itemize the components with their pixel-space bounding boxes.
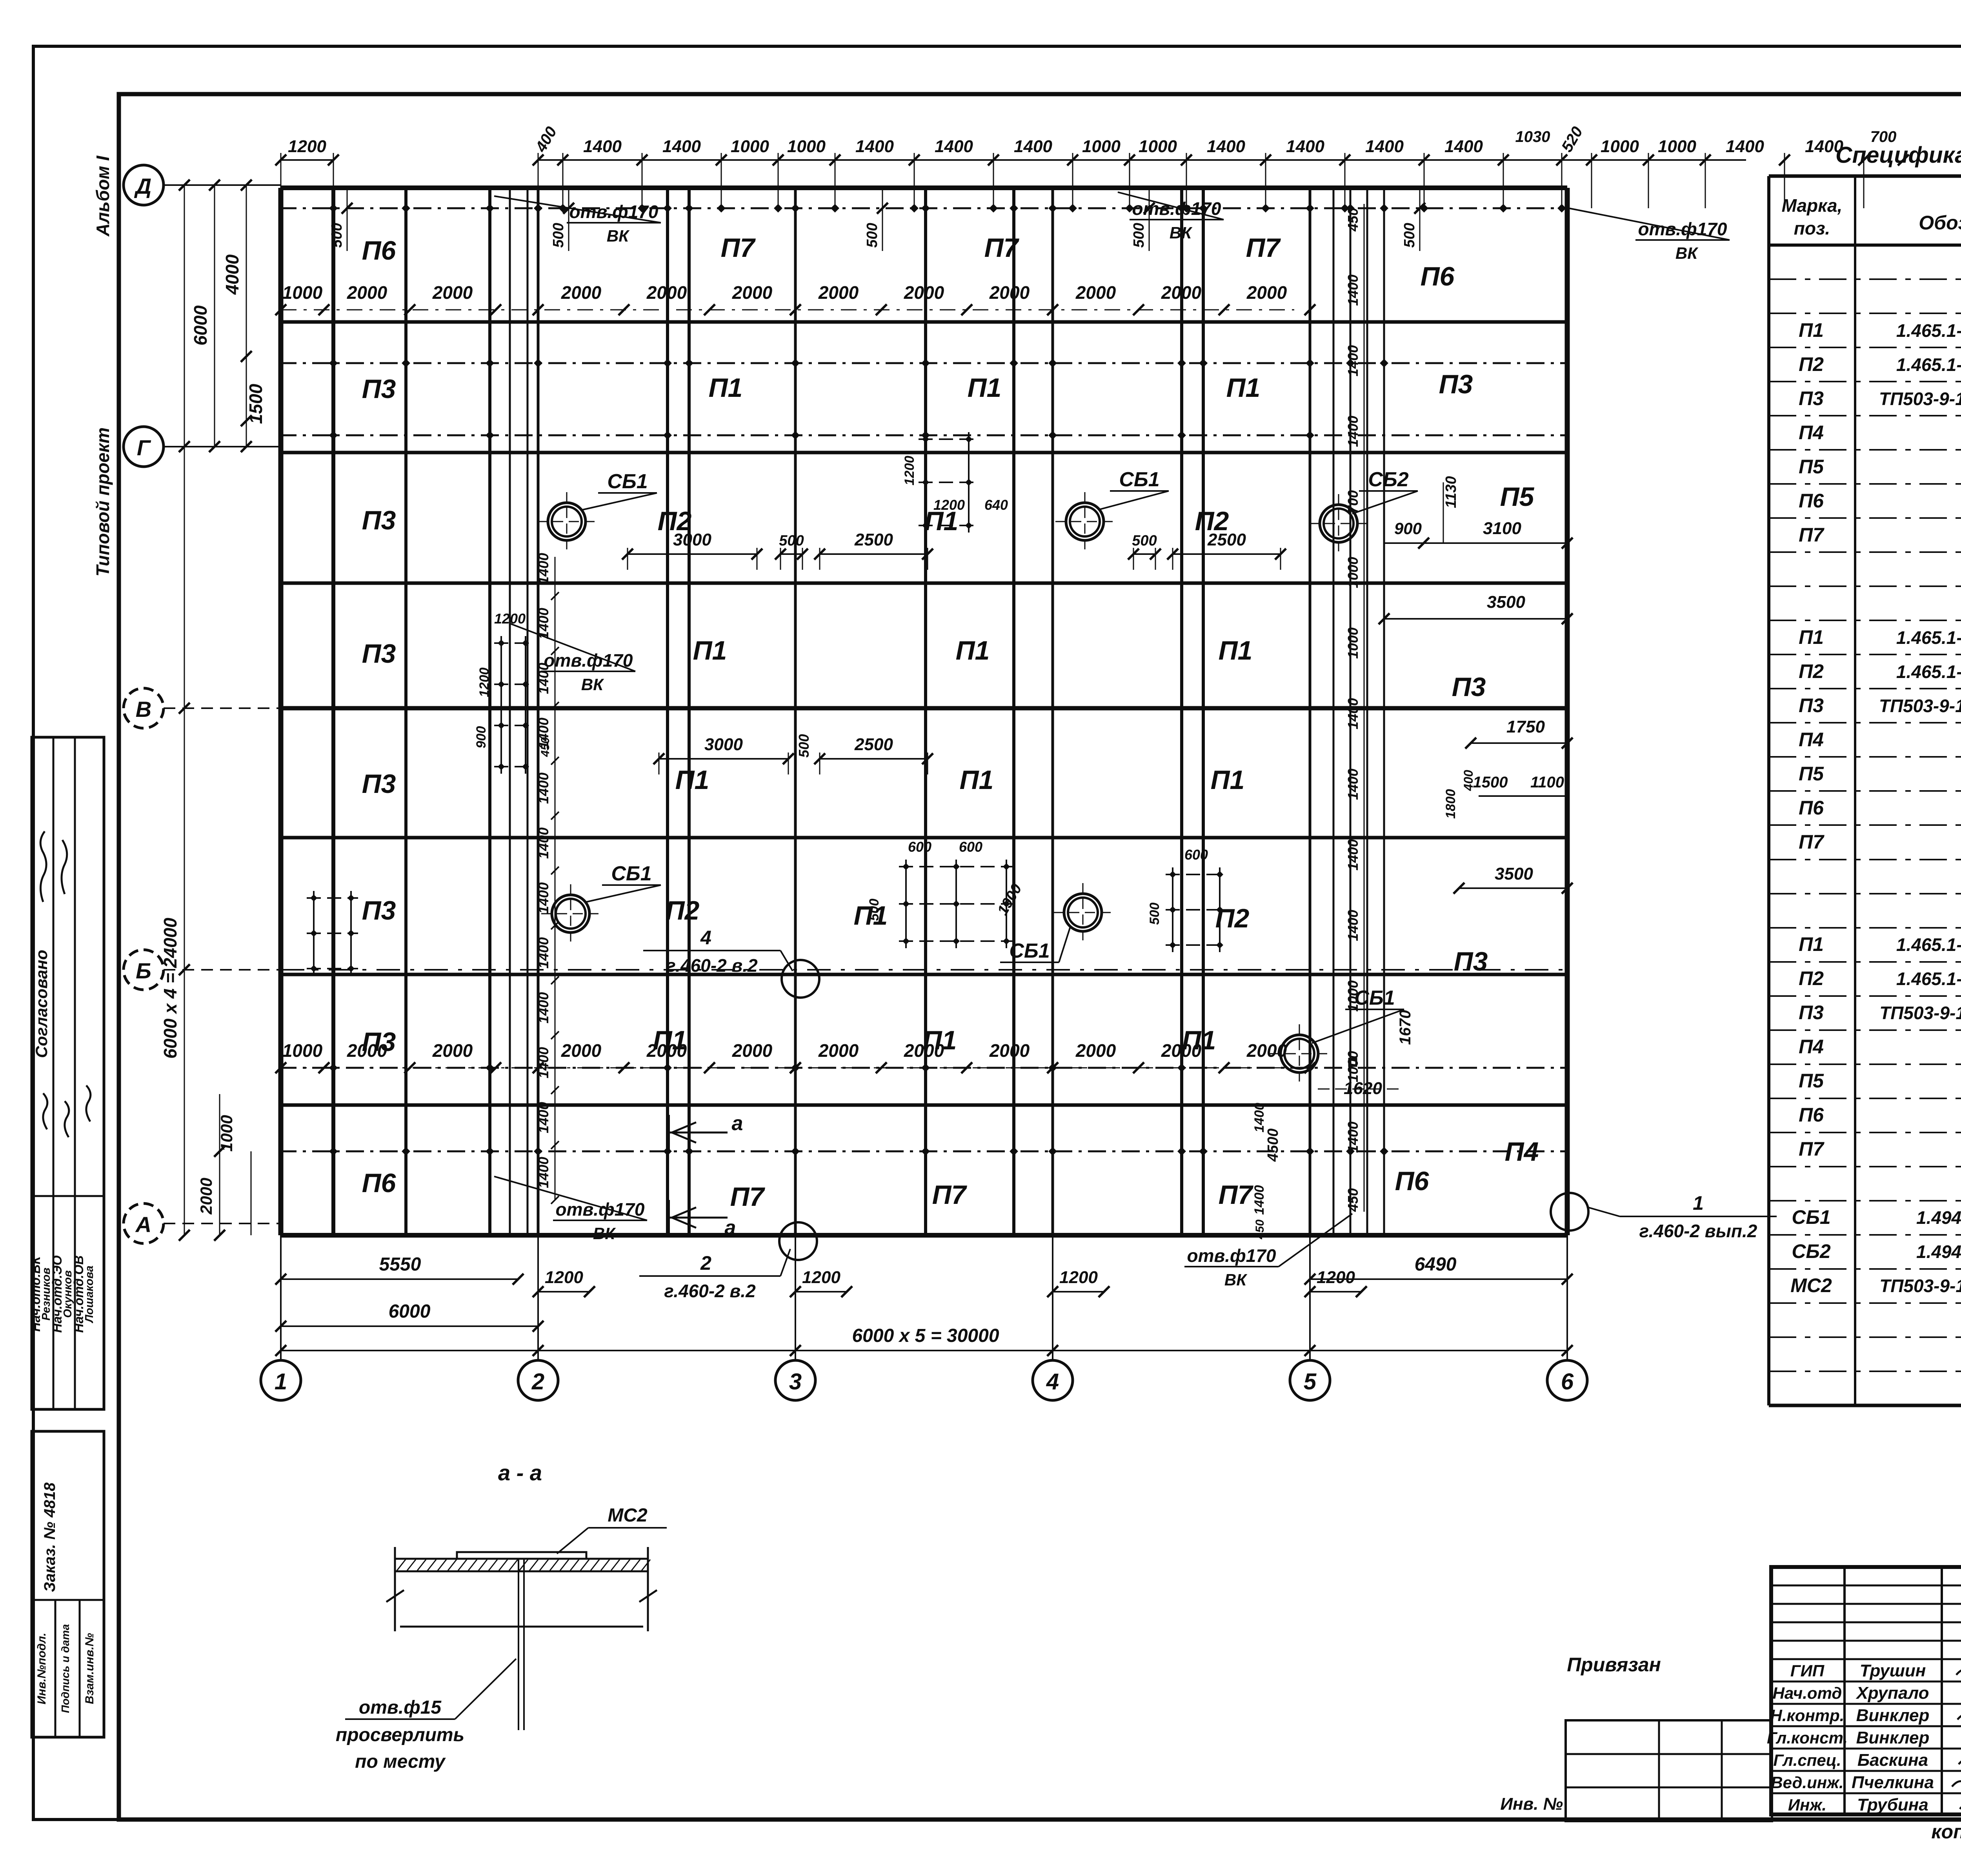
upper 2000 dimension row bbox=[275, 282, 1315, 315]
svg-text:500: 500 bbox=[1132, 533, 1157, 549]
svg-text:ТП503-9-12.86 КЖИ.050: ТП503-9-12.86 КЖИ.050 bbox=[1879, 1003, 1961, 1023]
svg-text:1000: 1000 bbox=[1345, 980, 1361, 1012]
svg-text:Привязан: Привязан bbox=[1567, 1654, 1661, 1676]
svg-text:2000: 2000 bbox=[432, 1040, 473, 1061]
svg-text:3000: 3000 bbox=[673, 530, 711, 549]
svg-text:П5: П5 bbox=[1500, 482, 1535, 512]
svg-text:2000: 2000 bbox=[989, 282, 1030, 303]
svg-text:500: 500 bbox=[1131, 223, 1147, 247]
bottom dims 5550 6000 bbox=[275, 1254, 544, 1332]
svg-text:Гл.спец.: Гл.спец. bbox=[1773, 1751, 1841, 1769]
svg-text:П6: П6 bbox=[1799, 490, 1824, 512]
svg-text:2000: 2000 bbox=[732, 1040, 773, 1061]
svg-text:1.465.1-10/82 вып.1: 1.465.1-10/82 вып.1 bbox=[1896, 934, 1961, 955]
svg-text:1030: 1030 bbox=[1515, 128, 1550, 145]
svg-text:1.494-24 вып.1: 1.494-24 вып.1 bbox=[1916, 1207, 1961, 1228]
svg-text:1400: 1400 bbox=[1726, 137, 1764, 156]
plan vertical slab joints and walls bbox=[281, 188, 1567, 1235]
svg-text:П3: П3 bbox=[1799, 387, 1824, 409]
svg-text:П1: П1 bbox=[693, 636, 727, 665]
svg-text:1400: 1400 bbox=[855, 137, 894, 156]
svg-text:3: 3 bbox=[789, 1369, 802, 1394]
left dims 6000 4000 1500 bbox=[190, 180, 266, 452]
top dimension chain 1400s bbox=[532, 124, 1909, 208]
svg-text:3500: 3500 bbox=[1487, 593, 1525, 612]
svg-text:3000: 3000 bbox=[704, 735, 743, 754]
svg-text:СБ2: СБ2 bbox=[1368, 468, 1408, 491]
svg-text:1000: 1000 bbox=[787, 137, 826, 156]
svg-text:СБ1: СБ1 bbox=[1792, 1206, 1830, 1228]
svg-text:2: 2 bbox=[700, 1252, 711, 1274]
svg-text:П7: П7 bbox=[1799, 524, 1825, 546]
section a-a detail bbox=[336, 1460, 667, 1772]
svg-text:2000: 2000 bbox=[818, 282, 859, 303]
svg-text:6: 6 bbox=[1561, 1369, 1574, 1394]
svg-text:Винклер: Винклер bbox=[1856, 1706, 1930, 1725]
svg-text:П2: П2 bbox=[666, 896, 700, 925]
svg-text:СБ1: СБ1 bbox=[1119, 468, 1159, 491]
svg-text:1.465.1-10/82 вып.1: 1.465.1-10/82 вып.1 bbox=[1896, 354, 1961, 375]
mid dims 3000 2500 bbox=[622, 530, 1286, 774]
svg-text:П1: П1 bbox=[1211, 765, 1245, 795]
svg-text:П3: П3 bbox=[362, 505, 396, 535]
svg-text:1130: 1130 bbox=[1443, 476, 1459, 508]
svg-text:П1: П1 bbox=[1799, 319, 1824, 341]
svg-text:5550: 5550 bbox=[379, 1254, 421, 1275]
row axis circles Д Г В Б А bbox=[124, 165, 281, 1243]
svg-text:1200: 1200 bbox=[288, 137, 326, 156]
svg-text:2000: 2000 bbox=[1075, 1040, 1116, 1061]
auxiliary grid table bbox=[1566, 1720, 1772, 1821]
svg-text:1200: 1200 bbox=[933, 497, 965, 513]
spec table frame bbox=[1769, 176, 1961, 1405]
svg-text:П3: П3 bbox=[1799, 694, 1824, 716]
svg-text:А: А bbox=[135, 1212, 151, 1237]
svg-text:г.460-2 в.2: г.460-2 в.2 bbox=[664, 1281, 756, 1301]
column axis circles 1-6 bbox=[261, 1235, 1587, 1400]
svg-text:400: 400 bbox=[1461, 770, 1475, 791]
svg-text:1.465.1-10/82 вып.1: 1.465.1-10/82 вып.1 bbox=[1896, 627, 1961, 648]
svg-text:1000: 1000 bbox=[1658, 137, 1696, 156]
svg-text:1400: 1400 bbox=[1345, 274, 1361, 306]
svg-text:1400: 1400 bbox=[1345, 839, 1361, 871]
svg-text:П7: П7 bbox=[730, 1182, 766, 1212]
svg-text:500: 500 bbox=[864, 223, 880, 247]
svg-text:1400: 1400 bbox=[1252, 1103, 1267, 1133]
svg-text:П1: П1 bbox=[653, 1025, 687, 1055]
svg-text:П4: П4 bbox=[1799, 422, 1824, 444]
svg-text:1000: 1000 bbox=[1345, 557, 1361, 588]
svg-text:1400: 1400 bbox=[1365, 137, 1404, 156]
opening grid B bbox=[1147, 847, 1227, 952]
svg-text:2000: 2000 bbox=[561, 282, 602, 303]
svg-text:П1: П1 bbox=[1182, 1025, 1216, 1055]
svg-text:700: 700 bbox=[1345, 490, 1361, 514]
svg-text:6490: 6490 bbox=[1415, 1254, 1457, 1275]
svg-text:по месту: по месту bbox=[355, 1751, 446, 1772]
svg-text:СБ1: СБ1 bbox=[611, 862, 651, 885]
svg-text:1400: 1400 bbox=[1345, 910, 1361, 941]
svg-text:1400: 1400 bbox=[1444, 137, 1483, 156]
svg-text:просверлить: просверлить bbox=[336, 1725, 464, 1745]
svg-text:500: 500 bbox=[779, 533, 804, 549]
svg-text:П1: П1 bbox=[923, 1025, 957, 1055]
svg-text:Спецификация к схеме расположе: Спецификация к схеме расположения плит п… bbox=[1835, 142, 1961, 168]
svg-text:2500: 2500 bbox=[854, 530, 893, 549]
svg-text:Инв.№подл.: Инв.№подл. bbox=[35, 1633, 48, 1705]
junction diamonds bbox=[329, 204, 1566, 1156]
svg-text:1400: 1400 bbox=[1345, 769, 1361, 800]
svg-text:3100: 3100 bbox=[1483, 519, 1521, 538]
svg-text:1400: 1400 bbox=[535, 773, 551, 804]
svg-text:Резников: Резников bbox=[40, 1267, 53, 1320]
project type note bbox=[93, 427, 113, 576]
svg-text:5: 5 bbox=[1304, 1369, 1317, 1394]
order stamp table bbox=[32, 1431, 104, 1737]
bottom 1200 offsets bbox=[533, 1268, 1367, 1297]
stakan СБ1 circles bbox=[537, 492, 1329, 1083]
svg-text:Окунков: Окунков bbox=[62, 1270, 74, 1318]
svg-text:1200: 1200 bbox=[802, 1268, 840, 1287]
svg-text:ТП503-9-12.86 КЖИ.270: ТП503-9-12.86 КЖИ.270 bbox=[1879, 1276, 1961, 1296]
svg-text:1000: 1000 bbox=[1601, 137, 1639, 156]
lower 2000 dimension row bbox=[275, 1040, 1315, 1073]
svg-text:2000: 2000 bbox=[1075, 282, 1116, 303]
svg-text:П7: П7 bbox=[1219, 1180, 1254, 1210]
dimension 1200 top left bbox=[275, 137, 339, 188]
svg-text:1000: 1000 bbox=[1345, 1051, 1361, 1082]
svg-text:Альбом I: Альбом I bbox=[93, 155, 113, 237]
svg-text:П7: П7 bbox=[1799, 1138, 1825, 1160]
svg-text:ВК: ВК bbox=[581, 675, 604, 694]
svg-text:ВК: ВК bbox=[1170, 224, 1193, 242]
svg-text:450: 450 bbox=[1345, 1188, 1361, 1212]
svg-text:1400: 1400 bbox=[535, 882, 551, 914]
svg-text:П3: П3 bbox=[362, 769, 396, 799]
svg-text:2000: 2000 bbox=[1246, 282, 1287, 303]
svg-text:1400: 1400 bbox=[1286, 137, 1324, 156]
opening grid E bbox=[307, 891, 358, 976]
opening grid C bbox=[902, 432, 1008, 533]
joint cluster near axis 5 bbox=[1333, 188, 1384, 1235]
section a-a arrows bbox=[669, 1112, 743, 1239]
svg-text:2000: 2000 bbox=[646, 282, 687, 303]
svg-text:6000: 6000 bbox=[190, 305, 211, 345]
svg-text:2000: 2000 bbox=[347, 282, 387, 303]
svg-text:отв.ф15: отв.ф15 bbox=[359, 1697, 442, 1718]
svg-text:450: 450 bbox=[1253, 1220, 1266, 1240]
copied-by note bbox=[1931, 1821, 1961, 1843]
svg-text:1000: 1000 bbox=[1139, 137, 1177, 156]
svg-text:П1: П1 bbox=[968, 373, 1002, 403]
svg-text:1500: 1500 bbox=[1473, 774, 1508, 791]
svg-text:500: 500 bbox=[1147, 903, 1162, 925]
svg-text:2000: 2000 bbox=[561, 1040, 602, 1061]
svg-text:П7: П7 bbox=[721, 233, 756, 263]
right bay dims bbox=[1379, 476, 1573, 894]
svg-text:П3: П3 bbox=[1452, 672, 1486, 702]
stakan СБ2 circle bbox=[1309, 494, 1368, 553]
axis extensions to dims bbox=[281, 1235, 1567, 1351]
svg-text:1000: 1000 bbox=[1345, 627, 1361, 659]
svg-text:Трушин: Трушин bbox=[1860, 1661, 1926, 1680]
svg-text:4000: 4000 bbox=[222, 254, 242, 295]
svg-text:Баскина: Баскина bbox=[1857, 1751, 1928, 1770]
svg-text:П1: П1 bbox=[1226, 373, 1261, 403]
opening grid A bbox=[867, 839, 1025, 948]
svg-text:500: 500 bbox=[867, 899, 882, 921]
svg-text:П6: П6 bbox=[1421, 262, 1455, 291]
svg-text:П1: П1 bbox=[709, 373, 743, 403]
svg-text:1800: 1800 bbox=[1443, 789, 1458, 819]
svg-text:П2: П2 bbox=[1799, 353, 1824, 375]
svg-text:СБ2: СБ2 bbox=[1792, 1240, 1831, 1262]
svg-text:2000: 2000 bbox=[432, 282, 473, 303]
svg-text:П3: П3 bbox=[1439, 369, 1473, 399]
left bottom dims bbox=[197, 1094, 251, 1241]
svg-text:Согласовано: Согласовано bbox=[32, 950, 51, 1058]
svg-text:П7: П7 bbox=[1799, 831, 1825, 853]
svg-text:1000: 1000 bbox=[282, 282, 323, 303]
svg-text:П2: П2 bbox=[1799, 660, 1824, 682]
svg-text:6000 x 5 = 30000: 6000 x 5 = 30000 bbox=[852, 1325, 999, 1346]
svg-text:1400: 1400 bbox=[535, 1157, 551, 1188]
svg-text:Г: Г bbox=[137, 435, 151, 460]
svg-text:П6: П6 bbox=[1395, 1166, 1430, 1196]
svg-text:П3: П3 bbox=[1799, 1002, 1824, 1023]
svg-text:П1: П1 bbox=[1799, 933, 1824, 955]
svg-text:500: 500 bbox=[1401, 223, 1418, 247]
svg-text:МС2: МС2 bbox=[1790, 1274, 1832, 1296]
svg-text:2000: 2000 bbox=[197, 1178, 215, 1214]
svg-text:а: а bbox=[725, 1216, 736, 1239]
svg-text:2000: 2000 bbox=[732, 282, 773, 303]
row axis chain lines bbox=[281, 708, 1567, 970]
svg-text:2000: 2000 bbox=[1161, 282, 1202, 303]
opening grid D bbox=[474, 611, 552, 774]
svg-text:Б: Б bbox=[136, 958, 151, 983]
svg-text:1400: 1400 bbox=[583, 137, 622, 156]
svg-text:П1: П1 bbox=[1219, 636, 1253, 665]
svg-text:ВК: ВК bbox=[1675, 244, 1699, 262]
rotated dims right bottom bbox=[1252, 1103, 1281, 1240]
svg-text:450: 450 bbox=[1345, 208, 1361, 232]
svg-text:П6: П6 bbox=[362, 236, 397, 265]
svg-text:2500: 2500 bbox=[1207, 530, 1246, 549]
svg-text:копировал Хрупало: копировал Хрупало bbox=[1931, 1821, 1961, 1843]
joint cluster near axis 2 bbox=[490, 188, 528, 1235]
svg-text:900: 900 bbox=[474, 726, 489, 749]
svg-text:4: 4 bbox=[700, 927, 711, 949]
svg-text:1200: 1200 bbox=[902, 456, 917, 485]
svg-text:1.465.1-10/82 вып.1: 1.465.1-10/82 вып.1 bbox=[1896, 320, 1961, 341]
svg-text:П3: П3 bbox=[1454, 947, 1488, 976]
svg-text:6000: 6000 bbox=[389, 1301, 431, 1322]
svg-text:П5: П5 bbox=[1799, 1070, 1824, 1092]
svg-text:1000: 1000 bbox=[731, 137, 769, 156]
svg-text:1400: 1400 bbox=[1252, 1185, 1267, 1215]
svg-text:1400: 1400 bbox=[535, 553, 551, 584]
svg-text:500: 500 bbox=[550, 223, 567, 247]
svg-text:ВК: ВК bbox=[607, 227, 630, 245]
svg-text:2000: 2000 bbox=[818, 1040, 859, 1061]
svg-text:6000 x 4 = 24000: 6000 x 4 = 24000 bbox=[160, 918, 180, 1059]
svg-text:1200: 1200 bbox=[494, 611, 526, 627]
bottom dim 30000 bbox=[275, 1325, 1573, 1356]
svg-text:Подпись и дата: Подпись и дата bbox=[59, 1624, 71, 1713]
svg-text:1000: 1000 bbox=[1082, 137, 1121, 156]
svg-text:П4: П4 bbox=[1505, 1137, 1539, 1167]
svg-text:1: 1 bbox=[1693, 1192, 1704, 1214]
svg-text:1000: 1000 bbox=[282, 1040, 323, 1061]
svg-text:1200: 1200 bbox=[477, 667, 492, 697]
svg-text:1400: 1400 bbox=[535, 1047, 551, 1078]
svg-text:а - а: а - а bbox=[498, 1460, 542, 1485]
svg-text:Вед.инж.: Вед.инж. bbox=[1771, 1773, 1843, 1792]
svg-text:П1: П1 bbox=[960, 765, 994, 795]
svg-text:1400: 1400 bbox=[535, 718, 551, 749]
svg-text:1400: 1400 bbox=[1014, 137, 1052, 156]
rotated dims near axis 5 bbox=[1345, 204, 1364, 1212]
svg-text:1100: 1100 bbox=[1530, 774, 1564, 791]
svg-text:Обозначение: Обозначение bbox=[1919, 212, 1961, 234]
svg-text:1400: 1400 bbox=[535, 663, 551, 694]
opening square 200x200 bbox=[1318, 1010, 1414, 1098]
svg-text:Н.контр.: Н.контр. bbox=[1770, 1706, 1845, 1725]
plan slab edge horizontal lines bbox=[281, 188, 1567, 1235]
svg-text:П1: П1 bbox=[956, 636, 990, 665]
svg-text:600: 600 bbox=[959, 839, 982, 855]
svg-text:отв.ф170: отв.ф170 bbox=[569, 202, 658, 222]
svg-text:ТП503-9-12.86-КЖИ.050: ТП503-9-12.86-КЖИ.050 bbox=[1879, 696, 1961, 716]
svg-text:СБ1: СБ1 bbox=[1009, 940, 1050, 962]
svg-text:Трубина: Трубина bbox=[1857, 1795, 1928, 1814]
inventory label bbox=[1500, 1794, 1563, 1814]
svg-text:г.460-2 в.2: г.460-2 в.2 bbox=[666, 955, 758, 976]
svg-text:П4: П4 bbox=[1799, 1036, 1824, 1058]
svg-text:Хрупало: Хрупало bbox=[1855, 1683, 1929, 1703]
svg-text:1750: 1750 bbox=[1506, 717, 1545, 736]
svg-text:1400: 1400 bbox=[1345, 416, 1361, 447]
svg-text:1400: 1400 bbox=[1345, 1122, 1361, 1153]
svg-text:1400: 1400 bbox=[535, 992, 551, 1023]
svg-text:В: В bbox=[136, 697, 151, 722]
svg-text:4500: 4500 bbox=[1265, 1129, 1281, 1162]
svg-text:900: 900 bbox=[1394, 519, 1422, 538]
svg-text:Типовой проект: Типовой проект bbox=[93, 427, 113, 576]
plan chain axis horizontal lines bbox=[278, 208, 1567, 1151]
svg-text:Пчелкина: Пчелкина bbox=[1852, 1773, 1934, 1792]
svg-text:500: 500 bbox=[796, 734, 812, 758]
svg-text:1670: 1670 bbox=[1397, 1010, 1414, 1045]
svg-text:1200: 1200 bbox=[545, 1268, 583, 1287]
svg-text:1200: 1200 bbox=[1059, 1268, 1098, 1287]
svg-text:г.460-2 вып.2: г.460-2 вып.2 bbox=[1639, 1221, 1757, 1241]
svg-text:1400: 1400 bbox=[535, 1102, 551, 1133]
svg-text:1400: 1400 bbox=[1207, 137, 1245, 156]
svg-text:ВК: ВК bbox=[1224, 1271, 1248, 1289]
bottom dim 6490 bbox=[1304, 1254, 1573, 1285]
svg-text:1.465.1-10/82 вып.1: 1.465.1-10/82 вып.1 bbox=[1896, 662, 1961, 682]
svg-text:ГИП: ГИП bbox=[1790, 1661, 1825, 1680]
binding note bbox=[1567, 1654, 1661, 1676]
svg-text:а: а bbox=[732, 1112, 743, 1135]
left dim 24000 bbox=[160, 180, 190, 1241]
svg-text:П6: П6 bbox=[1799, 1104, 1824, 1126]
svg-text:П5: П5 bbox=[1799, 763, 1824, 785]
svg-text:Инж.: Инж. bbox=[1788, 1796, 1826, 1814]
small 500 offsets top bbox=[329, 188, 1425, 251]
svg-text:П3: П3 bbox=[362, 639, 396, 669]
svg-text:1000: 1000 bbox=[217, 1115, 236, 1151]
svg-text:П3: П3 bbox=[362, 896, 396, 925]
svg-text:Взам.инв.№: Взам.инв.№ bbox=[83, 1633, 96, 1704]
svg-text:1: 1 bbox=[275, 1369, 287, 1394]
svg-text:3500: 3500 bbox=[1495, 864, 1533, 883]
svg-text:500: 500 bbox=[329, 223, 345, 247]
spec table title bbox=[1835, 142, 1961, 168]
СБ labels bbox=[582, 468, 1418, 1043]
svg-text:Инв. №: Инв. № bbox=[1500, 1794, 1563, 1814]
svg-text:П2: П2 bbox=[1799, 967, 1824, 989]
svg-text:1400: 1400 bbox=[935, 137, 973, 156]
svg-text:Нач.отд: Нач.отд bbox=[1773, 1684, 1842, 1702]
svg-text:П6: П6 bbox=[1799, 797, 1824, 819]
approval stamp table bbox=[28, 737, 104, 1409]
svg-text:СБ1: СБ1 bbox=[607, 470, 648, 493]
callout 4 bbox=[643, 927, 819, 998]
svg-text:Лошакова: Лошакова bbox=[83, 1265, 96, 1323]
svg-text:П5: П5 bbox=[1799, 456, 1824, 478]
svg-text:П6: П6 bbox=[362, 1168, 397, 1198]
svg-text:П3: П3 bbox=[362, 374, 396, 404]
svg-text:600: 600 bbox=[908, 839, 931, 855]
svg-text:2: 2 bbox=[531, 1369, 544, 1394]
svg-text:поз.: поз. bbox=[1794, 218, 1830, 238]
svg-text:Гл.конст.: Гл.конст. bbox=[1767, 1729, 1848, 1747]
svg-text:1400: 1400 bbox=[662, 137, 701, 156]
svg-text:Д: Д bbox=[134, 174, 151, 198]
svg-text:1.465.1-10/82 вып.1: 1.465.1-10/82 вып.1 bbox=[1896, 969, 1961, 989]
svg-text:МС2: МС2 bbox=[608, 1505, 648, 1526]
svg-text:1400: 1400 bbox=[535, 608, 551, 639]
svg-text:1500: 1500 bbox=[246, 384, 266, 424]
svg-text:2000: 2000 bbox=[989, 1040, 1030, 1061]
svg-text:600: 600 bbox=[1184, 847, 1208, 863]
svg-text:1.494-24 вып.1: 1.494-24 вып.1 bbox=[1916, 1242, 1961, 1262]
svg-text:1400: 1400 bbox=[1345, 345, 1361, 376]
slab marks П1-П7 bbox=[362, 233, 1539, 1212]
svg-text:П7: П7 bbox=[984, 233, 1020, 263]
svg-text:отв.ф170: отв.ф170 bbox=[1187, 1245, 1276, 1266]
svg-text:П3: П3 bbox=[362, 1027, 396, 1057]
title block bbox=[1767, 1567, 1961, 1814]
svg-text:640: 640 bbox=[984, 497, 1008, 513]
callout 2 bbox=[639, 1222, 817, 1301]
svg-text:П7: П7 bbox=[932, 1180, 968, 1210]
svg-text:1200: 1200 bbox=[1317, 1268, 1355, 1287]
svg-text:ТП503-9-12.86-КЖИ.050: ТП503-9-12.86-КЖИ.050 bbox=[1879, 389, 1961, 409]
svg-text:1400: 1400 bbox=[1345, 698, 1361, 729]
svg-text:Марка,: Марка, bbox=[1782, 195, 1843, 216]
svg-text:ВК: ВК bbox=[593, 1224, 616, 1243]
svg-text:Винклер: Винклер bbox=[1856, 1728, 1930, 1747]
rotated dims near axis 2 bbox=[535, 553, 559, 1204]
svg-text:4: 4 bbox=[1046, 1369, 1059, 1394]
svg-text:2500: 2500 bbox=[854, 735, 893, 754]
album note bbox=[93, 155, 113, 237]
callout 1 bbox=[1551, 1192, 1777, 1241]
